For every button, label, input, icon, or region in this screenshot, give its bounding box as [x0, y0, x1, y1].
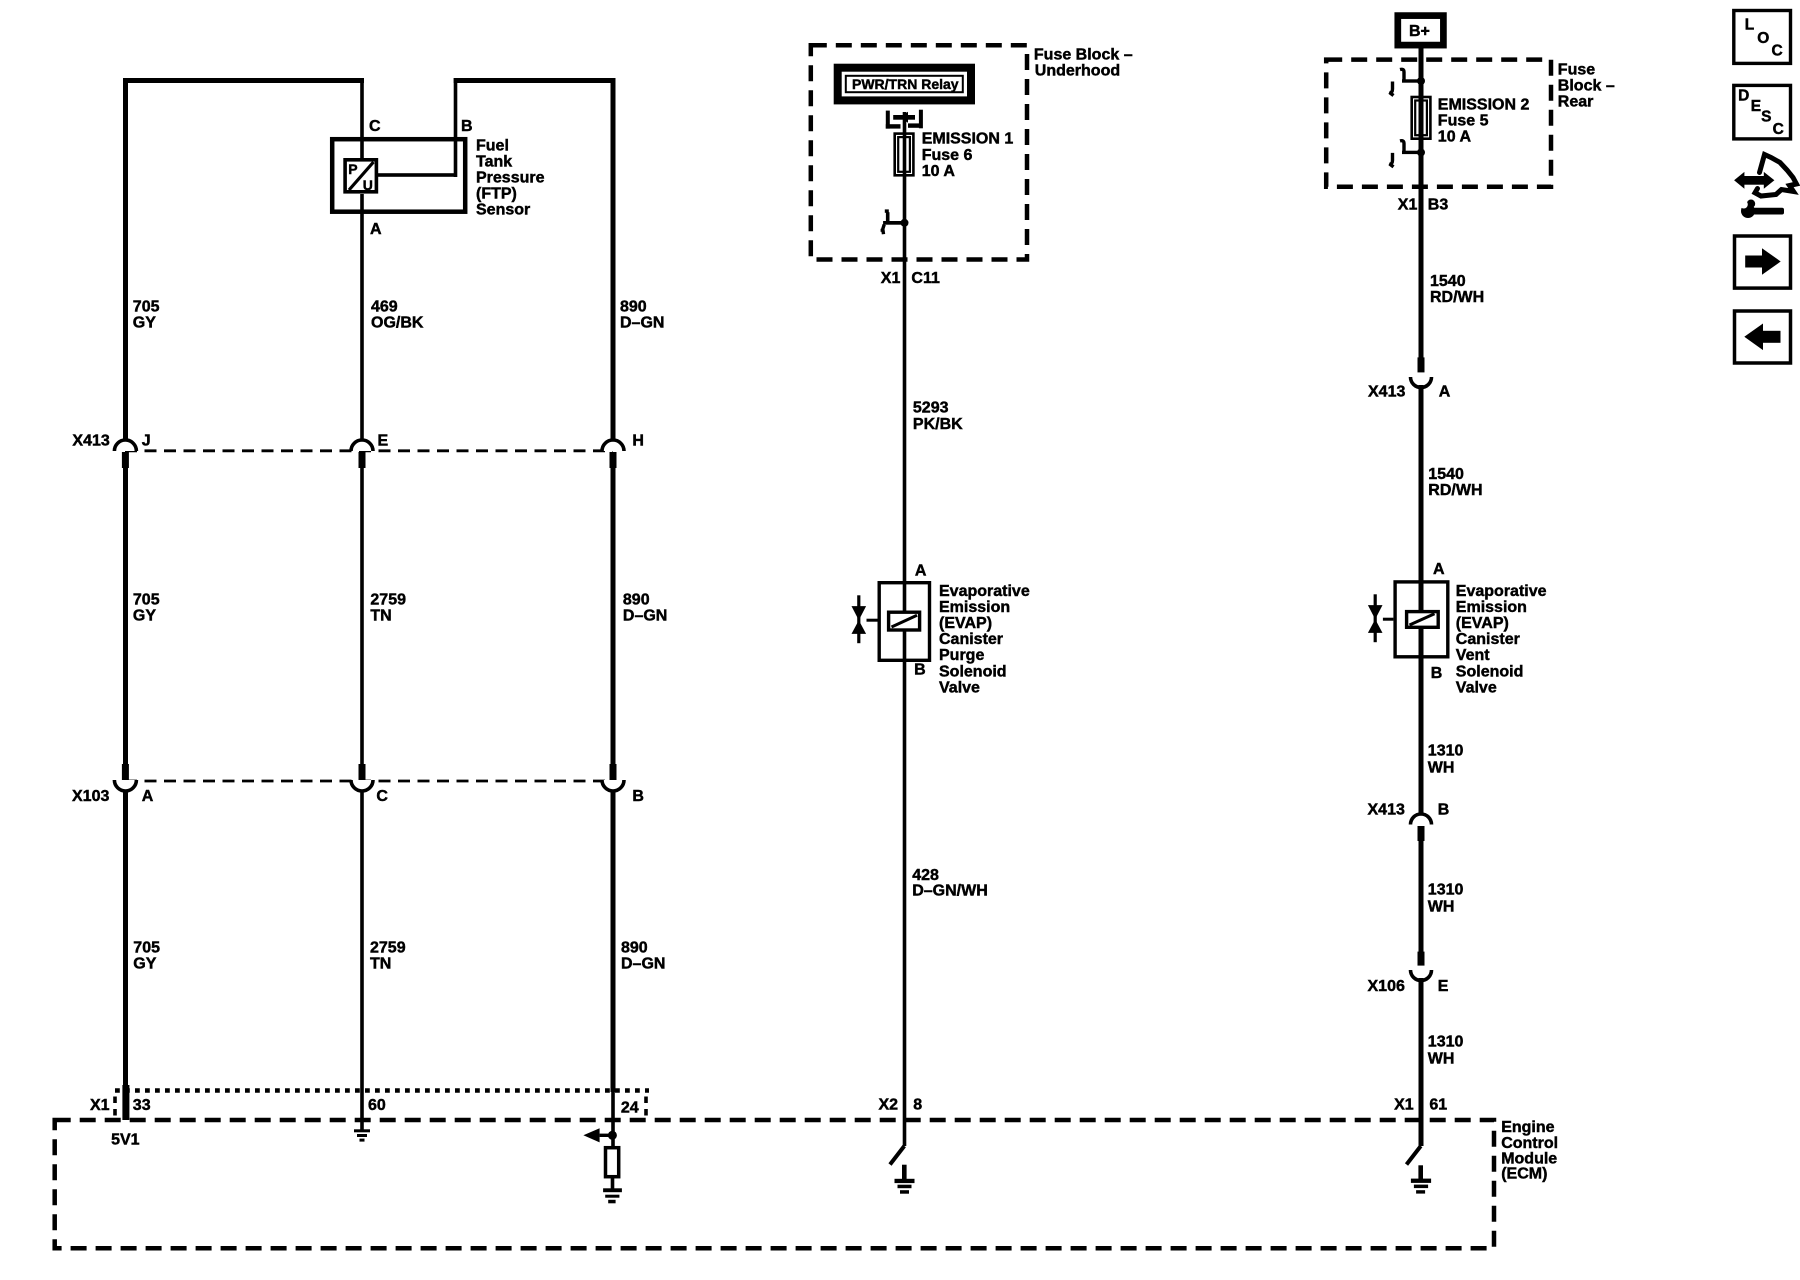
svg-text:WH: WH [1428, 759, 1455, 776]
svg-text:U: U [363, 177, 373, 193]
pin 24 junction dot [608, 1131, 617, 1140]
svg-text:Underhood: Underhood [1035, 63, 1120, 80]
svg-text:GY: GY [133, 956, 156, 973]
svg-text:D–GN/WH: D–GN/WH [912, 883, 988, 900]
svg-text:O: O [1757, 30, 1769, 47]
svg-text:(FTP): (FTP) [476, 186, 517, 203]
svg-text:1540: 1540 [1428, 466, 1464, 483]
svg-text:33: 33 [133, 1097, 151, 1114]
connector X413 pin H arc [602, 440, 624, 451]
svg-text:RD/WH: RD/WH [1428, 482, 1482, 499]
svg-text:D–GN: D–GN [621, 956, 665, 973]
pin 8 switch blade [890, 1146, 904, 1165]
svg-text:2759: 2759 [370, 940, 406, 957]
svg-text:890: 890 [621, 940, 648, 957]
ECM connector dotted row [115, 1088, 649, 1093]
EVAP purge solenoid box [879, 583, 929, 661]
wire 2759 TN middle vertical [360, 466, 364, 766]
connector X103 pin A stub [122, 764, 129, 780]
wire 890 D-GN lower vertical [611, 791, 616, 1092]
svg-text:B: B [914, 662, 926, 679]
svg-text:A: A [1433, 561, 1445, 578]
wire top-left horizontal [123, 78, 364, 83]
relay output bracket left [886, 111, 890, 129]
svg-text:C: C [376, 788, 388, 805]
svg-text:B+: B+ [1409, 23, 1430, 40]
wire pin B horizontal into P/U [377, 173, 457, 177]
svg-text:X1: X1 [881, 270, 901, 287]
svg-text:Sensor: Sensor [476, 202, 530, 219]
wire 469 below P/U to X413 E [360, 194, 364, 440]
svg-text:8: 8 [913, 1097, 922, 1114]
fuse EMISSION 2 outer [1412, 97, 1431, 139]
svg-text:P: P [348, 161, 357, 177]
svg-text:H: H [632, 432, 644, 449]
svg-text:D: D [1738, 88, 1749, 105]
svg-text:705: 705 [133, 940, 160, 957]
svg-text:Fuse: Fuse [1558, 62, 1595, 79]
pin 60 ground [354, 1129, 370, 1141]
pin 8 ground [895, 1165, 915, 1194]
svg-text:Purge: Purge [939, 647, 984, 664]
svg-text:Solenoid: Solenoid [1456, 663, 1524, 680]
svg-text:Fuse 6: Fuse 6 [922, 147, 973, 164]
connector X413 pin J arc [114, 440, 136, 451]
wire 705 GY middle vertical [123, 466, 128, 766]
svg-text:2759: 2759 [370, 592, 406, 609]
svg-text:WH: WH [1428, 1051, 1455, 1068]
connector X413 pin B arc [1411, 814, 1432, 825]
svg-text:5293: 5293 [913, 400, 949, 417]
relay output bracket right [919, 110, 923, 129]
svg-text:1310: 1310 [1428, 742, 1464, 759]
svg-text:X1: X1 [1398, 197, 1418, 214]
svg-text:Evaporative: Evaporative [939, 583, 1030, 600]
svg-text:RD/WH: RD/WH [1430, 289, 1484, 306]
svg-text:WH: WH [1428, 898, 1455, 915]
wire 705 GY upper vertical [123, 78, 128, 440]
connector X106 pin E stub [1418, 952, 1425, 966]
connector X103 pin B arc [602, 780, 624, 791]
svg-text:D–GN: D–GN [620, 315, 664, 332]
svg-text:A: A [142, 788, 154, 805]
vent valve symbol [1374, 594, 1377, 642]
svg-text:A: A [1439, 383, 1451, 400]
connector X413 pin A arc [1411, 377, 1432, 388]
pin 24 arrow [583, 1128, 599, 1142]
svg-text:Emission: Emission [939, 599, 1010, 616]
svg-text:X413: X413 [1368, 802, 1405, 819]
fuse EMISSION 2 inner [1415, 101, 1427, 136]
svg-text:D–GN: D–GN [623, 608, 667, 625]
wire 1540 RD/WH from B+ [1419, 45, 1424, 358]
fuse clip hook rear top [1390, 69, 1426, 95]
svg-text:EMISSION 2: EMISSION 2 [1438, 96, 1530, 113]
svg-text:J: J [142, 432, 151, 449]
wire 890 D-GN upper vertical [611, 78, 616, 440]
svg-text:10 A: 10 A [922, 163, 956, 180]
svg-text:60: 60 [368, 1097, 386, 1114]
icon hotlink wrench [1740, 200, 1784, 219]
svg-text:890: 890 [623, 592, 650, 609]
svg-text:Fuel: Fuel [476, 138, 509, 155]
connector X413 pin E stub [359, 452, 366, 468]
icon hotlink scribble arrow [1755, 155, 1797, 197]
icon hotlink double arrow [1734, 172, 1744, 189]
B+ box [1398, 16, 1444, 45]
FTP sensor box [332, 139, 465, 212]
connector X413 dashed line [125, 449, 613, 452]
fuse EMISSION 1 inner [898, 137, 910, 172]
svg-text:Block –: Block – [1558, 78, 1615, 95]
svg-text:TN: TN [370, 956, 391, 973]
connector X413 pin B stub [1418, 826, 1425, 841]
svg-text:Valve: Valve [939, 679, 980, 696]
pin 61 switch blade [1407, 1146, 1421, 1165]
svg-text:Vent: Vent [1456, 647, 1490, 664]
svg-text:Rear: Rear [1558, 94, 1594, 111]
svg-text:705: 705 [133, 592, 160, 609]
svg-text:Evaporative: Evaporative [1456, 583, 1547, 600]
connector X103 pin C stub [359, 764, 366, 780]
svg-text:C11: C11 [911, 270, 940, 287]
svg-text:C: C [1773, 121, 1784, 138]
svg-text:PWR/TRN Relay: PWR/TRN Relay [852, 76, 959, 92]
svg-text:A: A [915, 563, 927, 580]
wire pin B vertical [454, 78, 458, 177]
pin 61 ground [1411, 1165, 1431, 1193]
purge valve symbol [857, 595, 860, 643]
P/U diagonal [349, 162, 374, 190]
svg-text:469: 469 [371, 299, 398, 316]
svg-text:Tank: Tank [476, 154, 512, 171]
connector X103 pin B stub [610, 764, 617, 780]
svg-text:Solenoid: Solenoid [939, 663, 1007, 680]
ECM dashed box [55, 1120, 1494, 1248]
icon DESC box [1734, 85, 1791, 138]
svg-text:Canister: Canister [1456, 631, 1520, 648]
icon LOC box [1734, 11, 1791, 64]
svg-text:(ECM): (ECM) [1501, 1166, 1547, 1183]
svg-text:X413: X413 [72, 432, 109, 449]
svg-text:10 A: 10 A [1438, 129, 1472, 146]
connector X103 pin A arc [114, 780, 136, 791]
svg-text:Pressure: Pressure [476, 170, 545, 187]
svg-text:GY: GY [133, 608, 156, 625]
svg-text:(EVAP): (EVAP) [1456, 615, 1509, 632]
svg-text:Canister: Canister [939, 631, 1003, 648]
svg-text:1540: 1540 [1430, 273, 1466, 290]
svg-text:E: E [378, 432, 389, 449]
pin 24 resistor [606, 1148, 619, 1177]
svg-text:E: E [1438, 978, 1449, 995]
svg-text:61: 61 [1429, 1097, 1447, 1114]
wire 705 GY lower vertical [123, 791, 128, 1085]
svg-text:TN: TN [370, 608, 391, 625]
connector X103 dashed line [125, 780, 613, 783]
svg-text:X1: X1 [90, 1097, 110, 1114]
fuse clip hook middle [881, 209, 909, 234]
svg-text:A: A [370, 221, 382, 238]
wire 890 D-GN middle vertical [611, 466, 616, 766]
svg-text:X1: X1 [1394, 1097, 1414, 1114]
svg-text:428: 428 [912, 867, 939, 884]
svg-text:5V1: 5V1 [111, 1131, 140, 1148]
vent solenoid coil [1407, 612, 1439, 628]
fuse block rear dashed box [1326, 60, 1551, 187]
svg-text:B: B [1431, 665, 1443, 682]
wire pin 33 stub [122, 1085, 129, 1120]
purge coil diagonal [892, 615, 918, 627]
icon back arrow box [1735, 311, 1791, 363]
svg-text:E: E [1751, 98, 1761, 115]
svg-text:705: 705 [133, 299, 160, 316]
svg-text:OG/BK: OG/BK [371, 315, 424, 332]
connector X413 pin E arc [351, 440, 373, 451]
EVAP vent solenoid box [1395, 582, 1448, 657]
svg-text:L: L [1745, 17, 1754, 34]
pin 24 wire to ground [611, 1177, 615, 1190]
svg-text:B: B [461, 118, 473, 135]
fuse EMISSION 1 outer [895, 134, 914, 176]
svg-text:GY: GY [133, 315, 156, 332]
svg-text:1310: 1310 [1428, 1034, 1464, 1051]
svg-text:1310: 1310 [1428, 881, 1464, 898]
svg-text:Fuse 5: Fuse 5 [1438, 113, 1489, 130]
connector X103 pin C arc [351, 780, 373, 791]
connector X413 pin H stub [610, 452, 617, 468]
connector X413 pin J stub [122, 452, 129, 468]
wire 469 OG/BK vertical pin C [360, 78, 364, 158]
purge solenoid coil [889, 612, 920, 630]
pin 24 ground [603, 1188, 622, 1203]
connector X413 pin A stub [1418, 357, 1425, 372]
P/U transducer box [345, 160, 376, 192]
svg-text:Engine: Engine [1501, 1119, 1554, 1136]
svg-text:C: C [369, 118, 381, 135]
wire 2759 TN lower vertical [360, 791, 364, 1131]
wire 1540 RD/WH lower [1419, 385, 1424, 582]
svg-text:(EVAP): (EVAP) [939, 615, 992, 632]
wire top-right horizontal [454, 78, 615, 83]
svg-text:24: 24 [621, 1100, 639, 1117]
svg-text:X106: X106 [1368, 978, 1405, 995]
svg-text:X103: X103 [72, 788, 109, 805]
svg-text:B3: B3 [1428, 197, 1449, 214]
svg-text:S: S [1761, 108, 1771, 125]
icon forward arrow box [1735, 236, 1791, 288]
ECM connector bracket right [644, 1097, 648, 1117]
vent coil diagonal [1410, 614, 1435, 625]
svg-text:C: C [1772, 43, 1783, 60]
wire 1310 WH second [1419, 841, 1424, 952]
svg-text:X413: X413 [1368, 383, 1405, 400]
svg-text:Emission: Emission [1456, 599, 1527, 616]
fuse clip hook rear bottom [1390, 141, 1426, 167]
fuse block underhood dashed box [811, 45, 1027, 259]
wire 1310 WH third [1419, 978, 1424, 1146]
connector X106 pin E arc [1411, 970, 1432, 981]
svg-text:Fuse Block –: Fuse Block – [1034, 47, 1133, 64]
svg-text:890: 890 [620, 299, 647, 316]
relay output arrow [893, 115, 915, 120]
svg-text:PK/BK: PK/BK [913, 416, 963, 433]
svg-text:Valve: Valve [1456, 679, 1497, 696]
svg-text:B: B [1438, 802, 1450, 819]
svg-text:B: B [632, 788, 644, 805]
svg-text:X2: X2 [879, 1097, 899, 1114]
PWR/TRN relay box [838, 68, 971, 101]
svg-text:EMISSION 1: EMISSION 1 [922, 131, 1014, 148]
wire 5293 PK/BK from relay to ECM [903, 112, 907, 1146]
ECM connector bracket left [113, 1097, 117, 1117]
wire through vent solenoid [1419, 582, 1424, 611]
